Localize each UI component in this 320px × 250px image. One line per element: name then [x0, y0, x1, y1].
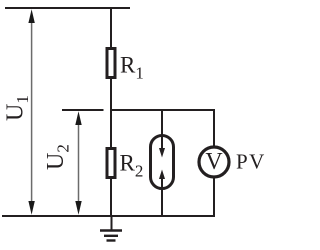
svg-text:U1: U1 — [3, 95, 33, 121]
resistor R1 — [107, 49, 115, 78]
svg-text:R1: R1 — [120, 53, 144, 83]
svg-text:U2: U2 — [43, 144, 73, 170]
wire from top rail to R1 — [110, 8, 112, 48]
svg-text:PV: PV — [236, 150, 266, 174]
wire from middle rail to stabilizer tube — [161, 110, 163, 136]
svg-text:R2: R2 — [120, 151, 144, 181]
wire from stabilizer tube to bottom rail — [161, 188, 163, 217]
dimension arrow U1 — [28, 9, 34, 215]
svg-text:V: V — [205, 149, 223, 175]
voltage stabilizer tube (gas discharge tube) — [151, 136, 174, 189]
dimension arrow U2 — [75, 111, 81, 215]
ground — [100, 216, 122, 241]
wire from R1 through node to R2 — [110, 79, 112, 148]
voltmeter PV — [199, 147, 229, 177]
wire from R2 to bottom rail — [110, 179, 112, 217]
wire top rail — [5, 7, 130, 9]
wire middle rail node to PV branch — [110, 109, 214, 111]
wire from voltmeter to bottom rail — [213, 177, 215, 217]
wire U2 reference tick — [62, 109, 104, 111]
wire from middle rail to voltmeter — [213, 109, 215, 147]
wire bottom rail — [2, 215, 214, 217]
resistor R2 — [107, 149, 115, 178]
